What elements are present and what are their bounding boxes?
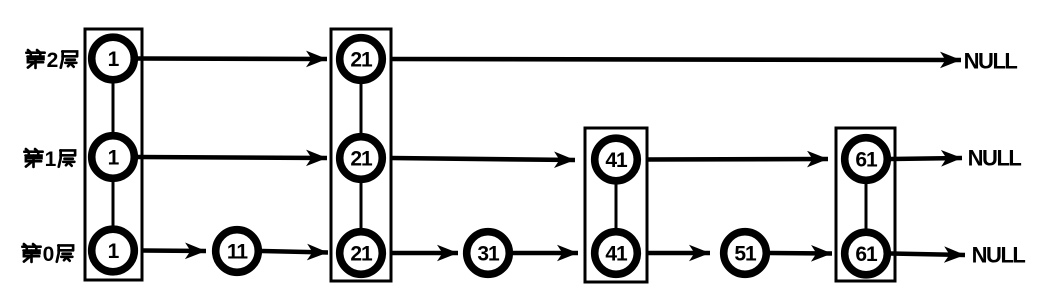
label level-2 (第2层) — [26, 49, 77, 72]
tower rect node 61 — [836, 128, 895, 281]
svg-text:41: 41 — [605, 149, 628, 172]
wire arrow L0: 41 to 51 — [647, 251, 710, 256]
svg-text:2: 2 — [47, 49, 59, 72]
svg-text:21: 21 — [350, 49, 373, 72]
node 41 level 0 — [595, 232, 638, 275]
wire arrow L0: 31 to 41 — [513, 251, 578, 256]
wire tower-1 vertical connector — [112, 59, 115, 251]
wire tower-61 vertical connector — [865, 159, 868, 254]
wire tower-21 vertical connector — [360, 59, 363, 253]
svg-text:NULL: NULL — [972, 243, 1026, 268]
node 11 level 0 — [216, 230, 259, 273]
svg-text:NULL: NULL — [968, 146, 1022, 171]
wire arrow L1: 1 to 21 — [138, 157, 327, 158]
svg-text:51: 51 — [734, 243, 757, 266]
tower rect node 1 — [85, 29, 142, 280]
wire arrow L1: 61 to NULL — [891, 158, 962, 159]
node 61 level 0 — [845, 232, 888, 275]
svg-text:1: 1 — [108, 240, 120, 263]
svg-text:61: 61 — [855, 243, 878, 266]
wire arrow L0: 21 to 31 — [391, 251, 458, 256]
wire arrow L2: 1 to 21 — [138, 56, 327, 61]
node 61 level 1 — [845, 138, 888, 181]
tower rect node 41 — [585, 128, 647, 282]
wire tower-41 vertical connector — [615, 160, 618, 254]
label level-1 (第1层) — [24, 148, 75, 171]
node 1 level 0 — [92, 229, 135, 272]
label level-0 (第0层) — [22, 243, 73, 266]
svg-text:NULL: NULL — [964, 49, 1018, 74]
node 21 level 0 — [340, 232, 383, 275]
svg-text:11: 11 — [227, 241, 249, 264]
node 51 level 0 — [724, 232, 767, 275]
svg-text:21: 21 — [350, 148, 373, 171]
svg-text:21: 21 — [350, 243, 373, 266]
svg-text:0: 0 — [43, 243, 55, 266]
svg-text:1: 1 — [45, 148, 57, 171]
tower rect node 21 — [331, 29, 391, 281]
wire arrow L0: 1 to 11 — [142, 248, 206, 253]
svg-text:1: 1 — [108, 147, 120, 170]
svg-text:61: 61 — [855, 149, 878, 172]
node 21 level 2 — [340, 38, 383, 81]
node 41 level 1 — [595, 138, 638, 181]
svg-text:41: 41 — [605, 243, 628, 266]
node 21 level 1 — [340, 137, 383, 180]
wire arrow L2: 21 to NULL — [391, 59, 961, 60]
wire arrow L1: 41 to 61 — [647, 157, 828, 162]
wire arrow L1: 21 to 41 — [391, 158, 575, 160]
node 1 level 1 — [92, 136, 135, 179]
svg-text:1: 1 — [108, 48, 120, 71]
wire arrow L0: 61 to NULL — [891, 254, 965, 256]
wire arrow L0: 11 to 21 — [262, 251, 328, 253]
node 1 level 2 — [92, 37, 135, 80]
wire arrow L0: 51 to 61 — [770, 251, 832, 256]
node 31 level 0 — [467, 232, 510, 275]
svg-text:31: 31 — [477, 243, 500, 266]
